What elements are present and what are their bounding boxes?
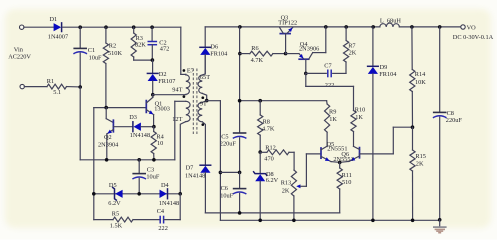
svg-text:10: 10	[157, 140, 163, 147]
node: Q1-emitter/D3/R4 junction	[152, 125, 156, 129]
svg-text:R8: R8	[263, 118, 270, 125]
svg-text:D4: D4	[161, 182, 170, 189]
svg-text:1N4148: 1N4148	[185, 173, 205, 180]
resistor R12 470	[260, 151, 267, 153]
wire 12T top to feedback bus	[174, 101, 176, 160]
svg-text:R6: R6	[251, 45, 258, 52]
capacitor C6 10uF	[239, 172, 241, 188]
svg-text:R11: R11	[342, 172, 352, 179]
svg-text:12T: 12T	[172, 116, 182, 123]
node: B+ crossing junction	[238, 99, 242, 103]
svg-text:2N3906: 2N3906	[299, 46, 319, 53]
capacitor C8 220uF	[439, 27, 441, 112]
AC input terminal (live)	[20, 25, 24, 29]
diode D6 FR104	[204, 27, 206, 47]
node: 65T/9T tap junction	[205, 99, 209, 103]
resistor R9 1K	[326, 101, 329, 104]
node: R3/C2/D2 junction	[151, 58, 155, 62]
svg-text:C8: C8	[447, 110, 454, 117]
svg-text:D5: D5	[109, 182, 117, 189]
wire left bus vertical	[93, 108, 95, 220]
wire tap vertical	[219, 101, 221, 221]
svg-text:C3: C3	[147, 167, 154, 174]
svg-text:1K: 1K	[355, 114, 363, 121]
zener D8 6.2V	[259, 152, 261, 173]
svg-text:FR104: FR104	[210, 50, 228, 57]
resistor R6 4.7K	[240, 53, 250, 55]
svg-text:5.1: 5.1	[53, 89, 61, 96]
svg-text:R10: R10	[355, 106, 366, 113]
wire feedback bus	[80, 159, 175, 161]
svg-text:C5: C5	[221, 133, 228, 140]
capacitor C4 222	[159, 216, 161, 224]
svg-text:L: L	[380, 17, 384, 24]
node: Q3 base junction	[284, 52, 288, 56]
output ground rail	[220, 219, 439, 221]
svg-text:AC220V: AC220V	[8, 54, 31, 61]
node: R3 top junction	[132, 25, 136, 29]
wire Q2 base to D3	[113, 126, 132, 128]
wire C1-bottom vertical to bottom feedback bus	[79, 87, 81, 160]
svg-text:1N4148: 1N4148	[159, 200, 179, 207]
output terminal VO	[461, 25, 465, 29]
wire R13 wiper to Q5 base	[306, 153, 321, 155]
resistor R3 82K	[133, 27, 135, 33]
node: R2/Q2-collector on Q1 base bus	[104, 106, 108, 110]
diode D9 FR104 (freewheel)	[372, 27, 374, 66]
node: R8/R12/D8 junction	[258, 150, 262, 154]
svg-text:6.2V: 6.2V	[108, 200, 121, 207]
inductor L 68uH	[380, 23, 400, 27]
B+ vertical wire	[239, 27, 241, 133]
capacitor C2 472	[151, 27, 153, 41]
diode D2 FR107	[152, 60, 154, 73]
wire D1 to top-left rail corner	[62, 26, 181, 28]
svg-text:R14: R14	[415, 71, 426, 78]
node: C5-bottom/C6-top junction	[238, 171, 242, 175]
node: Q4-base/C7/R10 junction	[304, 72, 308, 76]
node: R7 top junction	[344, 25, 348, 29]
resistor R1 5.1	[24, 86, 47, 88]
capacitor C3 10uF	[138, 160, 140, 173]
node: D9 top junction	[371, 25, 375, 29]
resistor R8 4.7K	[259, 101, 261, 115]
svg-text:472: 472	[160, 46, 169, 53]
node: C2 top junction	[150, 25, 154, 29]
resistor R10 1K	[353, 86, 355, 110]
svg-text:C6: C6	[221, 185, 228, 192]
wire D5/D4 row	[94, 193, 181, 195]
resistor R2 510K	[105, 27, 107, 43]
node: left bus / D5 row	[92, 192, 96, 196]
svg-text:68uH: 68uH	[387, 17, 401, 24]
resistor R7 2K	[345, 62, 347, 73]
svg-text:D3: D3	[129, 114, 137, 121]
node: D4/12T-bottom junction	[178, 192, 182, 196]
phase dot 65T bottom	[201, 96, 204, 99]
svg-text:R15: R15	[415, 153, 426, 160]
node: R1/C1 junction	[78, 85, 82, 89]
svg-text:DC 0-30V-0.1A: DC 0-30V-0.1A	[453, 34, 494, 41]
svg-text:220uF: 220uF	[446, 117, 463, 124]
svg-text:510: 510	[342, 179, 351, 186]
svg-text:R1: R1	[47, 78, 54, 85]
node: C3 top on bus	[137, 158, 141, 162]
svg-text:4.7K: 4.7K	[251, 57, 264, 64]
node: D2/Q1-collector/primary junction	[151, 93, 155, 97]
node: Q5/Q6 emitter junction	[338, 161, 342, 165]
secondary top rail	[205, 26, 380, 28]
resistor R5 1.5K	[94, 219, 113, 221]
node: C1 top junction	[78, 25, 82, 29]
svg-text:Vin: Vin	[14, 46, 24, 53]
svg-text:1N4007: 1N4007	[48, 34, 68, 41]
svg-text:1K: 1K	[329, 116, 337, 123]
capacitor C5 220uF	[233, 132, 247, 134]
transistor Q4 2N3906	[299, 58, 309, 60]
transistor Q5 2N5551	[320, 148, 322, 158]
svg-text:94T: 94T	[172, 87, 182, 94]
transistor Q2 2N3904	[105, 108, 107, 119]
resistor R15 2K	[412, 127, 414, 150]
svg-text:VO: VO	[467, 25, 477, 32]
transformer core	[192, 69, 194, 135]
svg-text:2N5551: 2N5551	[333, 156, 353, 163]
wire R12 to R13	[293, 152, 295, 170]
svg-text:6.2V: 6.2V	[266, 177, 279, 184]
svg-text:D6: D6	[210, 43, 218, 50]
node: C8 top junction	[438, 25, 442, 29]
wire terminal to D1	[24, 26, 54, 28]
transistor Q1 13003	[145, 101, 147, 113]
svg-text:R2: R2	[109, 42, 116, 49]
svg-text:C7: C7	[324, 63, 331, 70]
wire tap to C5 bottom	[220, 171, 239, 173]
svg-text:R13: R13	[281, 179, 292, 186]
transformer feedback winding 12T	[175, 100, 186, 102]
node: D8 bottom on ground rail	[258, 219, 262, 223]
svg-text:82K: 82K	[135, 41, 146, 48]
svg-text:2K: 2K	[282, 187, 290, 194]
node: R15 bottom on ground rail	[411, 219, 415, 223]
wire Q6 base link	[360, 153, 394, 155]
zener D5 6.2V	[113, 188, 117, 201]
wire D2 to Q1 collector node	[152, 81, 154, 95]
diode D3 1N4148	[132, 122, 134, 132]
transistor Q3 TIP122 (series pass)	[280, 33, 290, 35]
svg-text:FR104: FR104	[379, 71, 397, 78]
AC input terminal (neutral)	[20, 84, 24, 88]
svg-text:2K: 2K	[416, 161, 424, 168]
svg-text:10uF: 10uF	[89, 54, 102, 61]
node: R2 top junction	[104, 25, 108, 29]
svg-text:2K: 2K	[349, 49, 357, 56]
svg-text:9T: 9T	[200, 101, 207, 108]
wire B+ node to R9	[240, 100, 327, 102]
svg-text:10uF: 10uF	[146, 174, 159, 181]
svg-text:D1: D1	[50, 16, 58, 23]
svg-text:FR107: FR107	[158, 78, 175, 85]
svg-text:2N3904: 2N3904	[98, 141, 119, 148]
transformer secondary winding 65T	[202, 55, 205, 75]
potentiometer R13 2K	[291, 170, 296, 196]
node: R14 top junction	[410, 25, 414, 29]
phase dot 9T bottom	[201, 123, 204, 126]
svg-text:R5: R5	[112, 210, 119, 217]
node: R4 bottom on bus	[152, 158, 156, 162]
wire node to transformer primary bottom	[153, 94, 186, 96]
svg-text:470: 470	[264, 155, 273, 162]
node: B+ vertical top	[238, 25, 242, 29]
resistor R14 10K	[411, 27, 413, 70]
resistor R4 10	[153, 127, 155, 132]
node: tap/C5 junction	[219, 171, 223, 175]
transistor Q6 2N5551	[359, 148, 361, 158]
svg-text:D7: D7	[186, 164, 194, 171]
transformer winding 9T	[202, 101, 206, 103]
svg-text:4.7K: 4.7K	[262, 126, 275, 133]
diode D4 1N4148	[167, 189, 169, 199]
svg-text:220uF: 220uF	[220, 141, 237, 148]
svg-text:1.5K: 1.5K	[110, 223, 123, 230]
svg-text:Q2: Q2	[104, 134, 112, 141]
wire Q4 node to R10	[305, 73, 307, 86]
svg-text:222: 222	[158, 225, 167, 232]
svg-text:R12: R12	[265, 145, 276, 152]
ground symbol	[439, 220, 441, 227]
svg-text:10uF: 10uF	[220, 193, 233, 200]
wire R3 bottom to C2 bottom	[134, 59, 153, 61]
diode D7 1N4148	[200, 164, 211, 166]
node: R13 bottom on ground rail	[292, 219, 296, 223]
node: R14/R15 junction	[411, 125, 415, 129]
wire R6 node to Q4 emitter	[286, 53, 299, 55]
transformer primary winding 94T	[186, 75, 190, 95]
node: C6 bottom on aux rail	[238, 211, 242, 215]
svg-text:222: 222	[325, 82, 334, 89]
wire Q1 base bus	[94, 107, 147, 109]
svg-text:C1: C1	[88, 47, 95, 54]
phase dot primary top	[183, 69, 186, 72]
svg-text:1N4148: 1N4148	[130, 132, 150, 139]
negative auxiliary rail	[205, 212, 339, 214]
svg-text:TIP122: TIP122	[278, 19, 297, 26]
svg-text:C4: C4	[157, 208, 165, 215]
svg-text:13003: 13003	[154, 106, 170, 113]
svg-text:10K: 10K	[415, 79, 426, 86]
svg-text:R9: R9	[329, 109, 336, 116]
resistor R11 510	[339, 162, 341, 168]
node: R8 top junction	[258, 99, 262, 103]
wire rail down-feed to primary	[180, 27, 182, 74]
node: ground symbol junction	[438, 218, 442, 222]
node: C3/D5/D4 junction	[137, 192, 141, 196]
node: D9 bottom on ground rail	[371, 219, 375, 223]
wire D3 to R4 top node	[141, 126, 154, 128]
node: R6 left junction	[238, 52, 242, 56]
node: Q2 emitter on bus	[105, 158, 109, 162]
node: Q4 collector rail junction	[324, 25, 328, 29]
capacitor C1 10uF	[79, 27, 81, 48]
diode D1 1N4007	[54, 23, 62, 31]
phase dot primary bottom	[183, 95, 186, 98]
svg-text:65T: 65T	[200, 74, 210, 81]
capacitor C7 222	[306, 72, 327, 74]
svg-text:510K: 510K	[108, 50, 122, 57]
